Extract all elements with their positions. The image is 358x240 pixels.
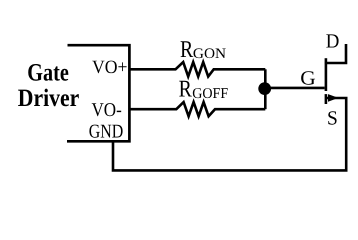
transistor Q1 channel lower bar	[325, 94, 328, 104]
svg-text:VO-: VO-	[92, 100, 122, 121]
wire VO+ with resistor RGON zigzag	[129, 62, 265, 76]
svg-text:S: S	[327, 108, 338, 130]
svg-text:Gate: Gate	[27, 60, 69, 87]
gate driver box U1 (open on left side)	[67, 45, 129, 141]
wire node to transistor gate	[264, 87, 325, 90]
transistor Q1 channel upper bar	[325, 58, 328, 91]
svg-text:Driver: Driver	[18, 85, 80, 112]
svg-text:D: D	[326, 30, 340, 52]
svg-text:GOFF: GOFF	[192, 86, 228, 102]
svg-text:VO+: VO+	[92, 57, 128, 78]
svg-text:GND: GND	[89, 122, 124, 143]
svg-text:G: G	[300, 68, 316, 90]
drain lead wire	[325, 44, 346, 63]
node junction dot	[258, 82, 271, 95]
source lead wire, bottom return wire and gnd riser	[113, 98, 346, 170]
wire VO- with resistor RGOFF zigzag	[129, 102, 265, 116]
source arrow	[328, 94, 338, 102]
svg-text:R: R	[179, 76, 192, 102]
svg-text:R: R	[180, 37, 193, 63]
wire vertical connector joining resistor outputs	[264, 69, 267, 109]
svg-text:GON: GON	[193, 46, 227, 62]
